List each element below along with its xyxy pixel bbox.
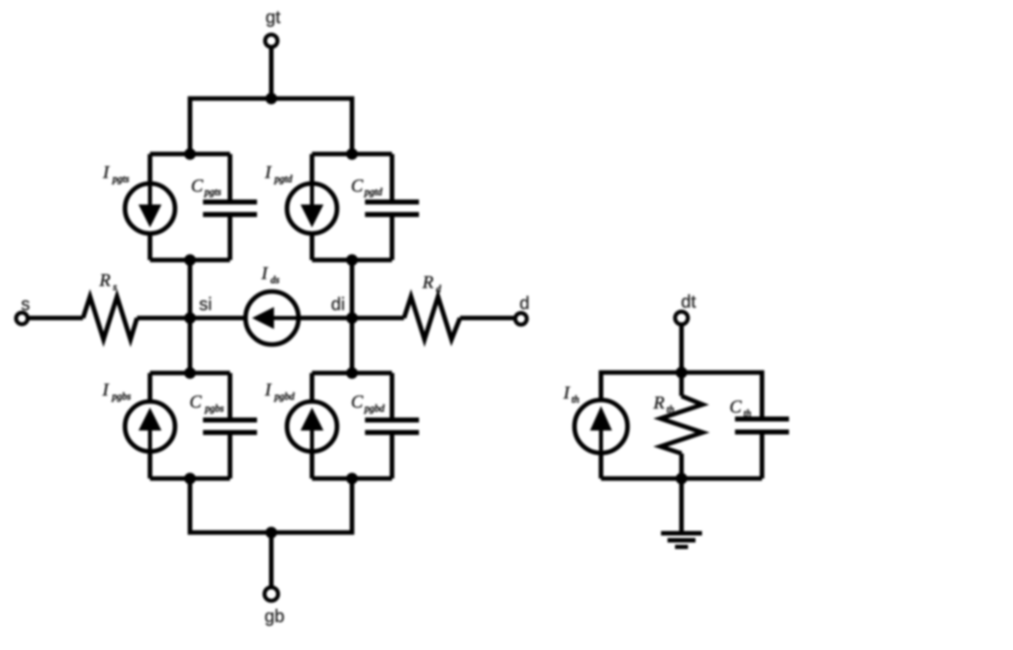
junction dot di [346,312,358,324]
junction dot thermal bottom [676,473,688,485]
svg-text:pgtd: pgtd [274,174,294,185]
current source I_pgtd circle [287,184,337,234]
bottom-right block outline [312,373,392,479]
top-right block outline [312,154,392,260]
I_pgbd arrow [301,408,324,450]
junction dot bottom-left block bottom [184,473,196,485]
wire Rth branch top [679,373,684,397]
junction dot bottom-right block top [346,367,358,379]
svg-text:R: R [422,272,434,292]
svg-text:s: s [21,294,30,314]
thermal right branch lower [601,435,762,479]
resistor Rth [661,396,703,454]
ground bar1 [661,531,702,536]
svg-text:pgbs: pgbs [204,404,224,415]
I_th arrow [590,406,612,451]
I_pgbs arrow [139,408,162,450]
current source I_pgts circle [125,184,175,234]
wire ground stem [679,479,684,532]
svg-text:I: I [563,383,571,403]
svg-text:C: C [191,176,204,196]
wire gb stem [269,533,274,587]
svg-text:pgbs: pgbs [111,392,131,403]
current source I_pgbd circle [287,402,337,452]
wire bottom bus [190,479,352,533]
resistor Rd [404,297,460,340]
thermal block top rail [601,373,762,479]
svg-text:I: I [261,263,269,283]
junction dot si [184,312,196,324]
wire si column [188,260,193,373]
top-left block outline [150,154,230,260]
current source I_ds circle [246,292,299,345]
svg-text:R: R [653,393,665,413]
terminal d [515,313,527,325]
I_ds arrow [252,307,297,329]
junction dot top-left block bottom [184,254,196,266]
svg-text:C: C [730,397,743,417]
svg-text:gt: gt [265,7,280,27]
capacitor C_pgbd plates [365,418,419,423]
svg-text:d: d [519,293,529,313]
svg-text:th: th [744,409,752,420]
svg-text:pgts: pgts [204,187,222,198]
terminal dt [675,312,688,325]
junction dot top-right block bottom [346,254,358,266]
I_pgtd arrow [301,186,324,228]
junction dot top-right block top [346,148,358,160]
junction dot dt-rail [676,367,688,379]
svg-text:pgtd: pgtd [364,187,384,198]
svg-text:pgbd: pgbd [274,392,296,403]
wire dt stem [679,326,684,373]
capacitor C_pgbs plates [203,418,257,423]
svg-text:pgts: pgts [112,174,130,185]
svg-text:I: I [102,380,110,400]
junction dot top-left block top [184,148,196,160]
junction dot bottom-right block bottom [346,473,358,485]
svg-text:dt: dt [681,292,696,312]
svg-text:pgbd: pgbd [364,404,386,415]
wire gt stem [269,49,274,99]
terminal s [16,313,28,325]
current source I_th circle [575,400,628,453]
svg-text:I: I [264,162,272,182]
junction dot bottom-left block top [184,367,196,379]
bottom-left block outline [150,373,230,479]
terminal gt [265,35,277,47]
svg-text:si: si [199,294,212,314]
capacitor C_pgts plates [203,200,257,205]
svg-text:gb: gb [264,606,284,626]
svg-text:I: I [102,162,110,182]
terminal gb [265,587,279,601]
svg-text:R: R [99,270,111,290]
svg-text:s: s [113,282,117,293]
resistor Rs [83,297,137,340]
svg-text:C: C [190,392,203,412]
junction dot gt-rail [266,93,278,105]
svg-text:th: th [667,405,675,416]
svg-text:d: d [436,284,442,295]
svg-text:ds: ds [271,275,280,286]
wire di column [350,260,355,373]
wire top rail [190,99,352,155]
wire middle rail left [30,316,514,321]
current source I_pgbs circle [125,402,175,452]
ground bar2 [668,538,696,543]
I_pgts arrow [139,186,162,228]
svg-text:I: I [264,380,272,400]
junction dot gb-bus [266,527,278,539]
svg-text:di: di [331,294,345,314]
svg-text:C: C [351,392,364,412]
svg-text:th: th [572,395,580,406]
capacitor C_th plates [735,417,789,422]
ground bar3 [675,545,688,549]
wire Rth branch bottom [679,454,684,479]
capacitor C_pgtd plates [365,200,419,205]
svg-text:C: C [351,176,364,196]
